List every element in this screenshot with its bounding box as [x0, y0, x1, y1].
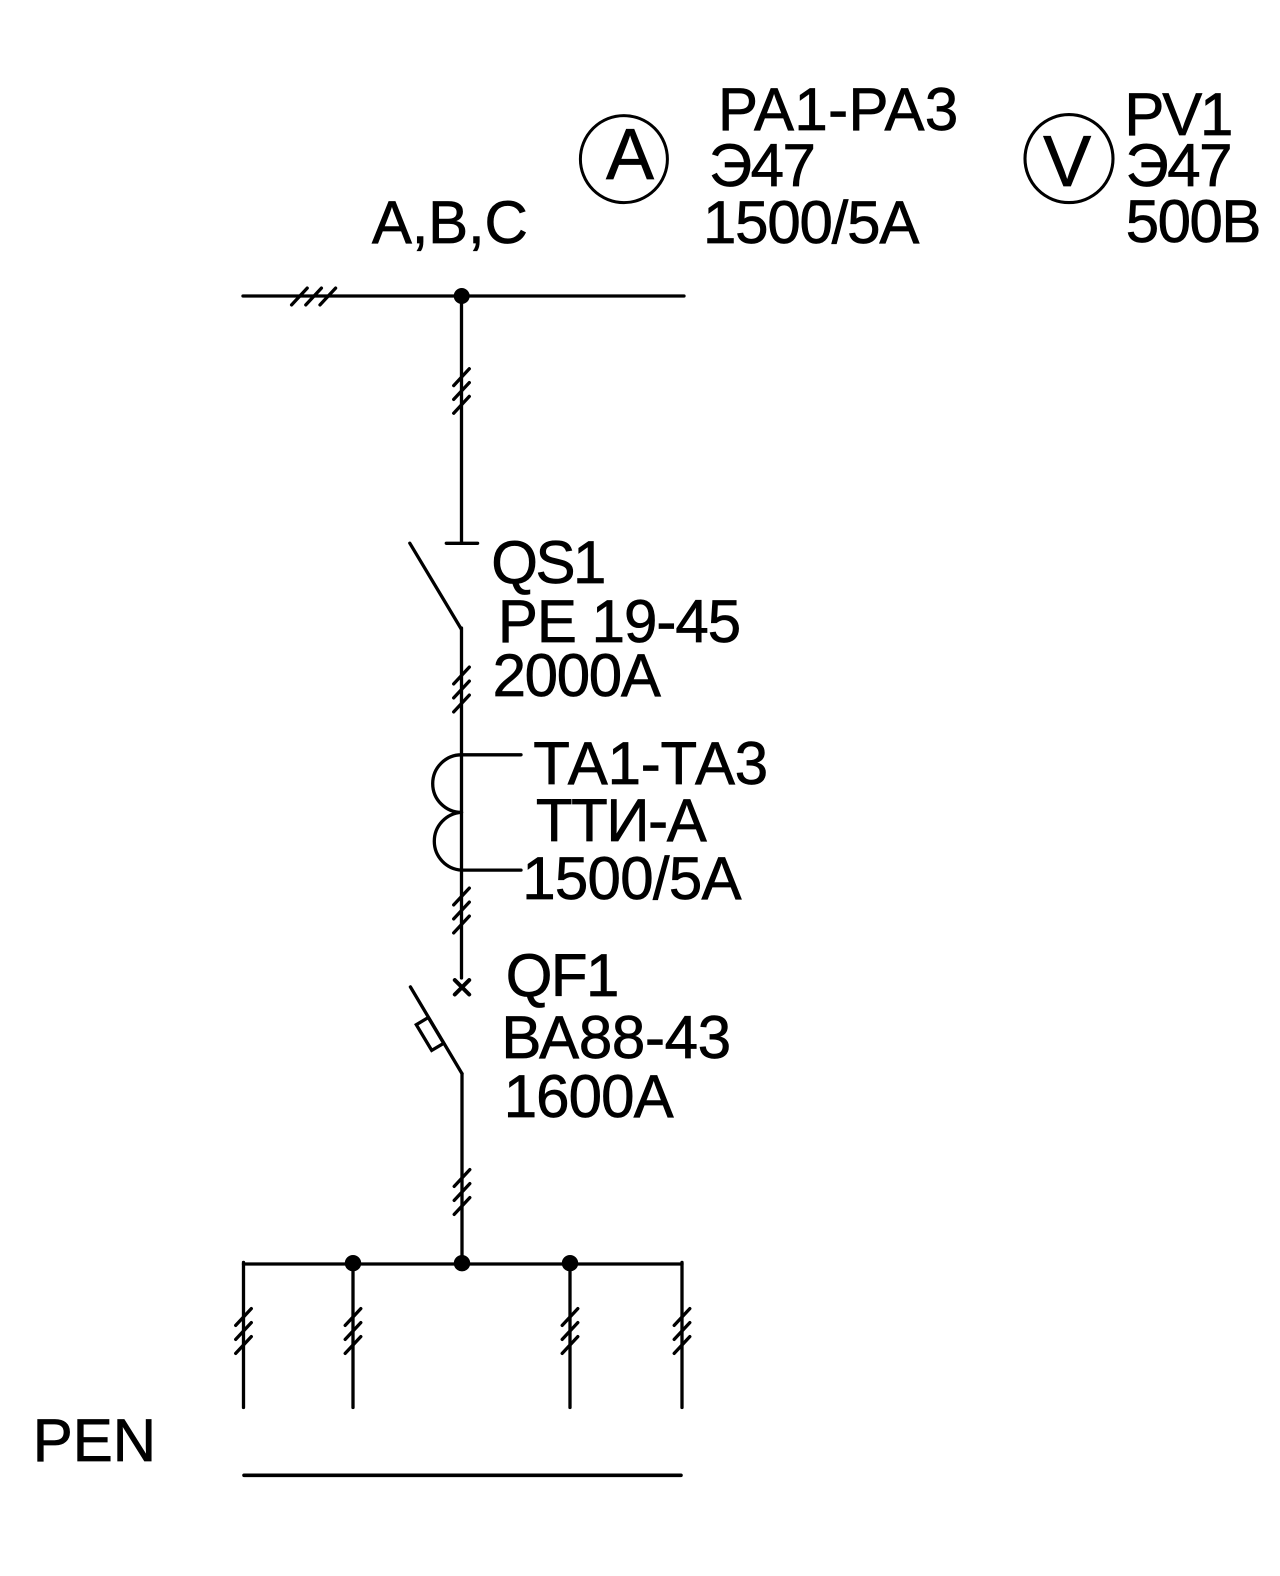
voltmeter PV circle — [1025, 115, 1113, 203]
value 1500/5A (ammeter) — [703, 193, 918, 253]
label PA1-PA3 — [718, 80, 959, 140]
three-phase marks on feeder — [454, 369, 470, 386]
three-phase marks — [454, 667, 470, 684]
value 500V (voltmeter) — [1126, 192, 1260, 252]
circuit breaker QF1 — [455, 980, 469, 994]
net A,B,C — [372, 193, 528, 253]
feeder drops — [242, 1262, 245, 1407]
three-phase marks on drops — [236, 1309, 252, 1326]
value ТТИ-А (TA type) — [536, 791, 705, 851]
value Э47 (ammeter type) — [709, 136, 814, 196]
label QF1 — [506, 946, 618, 1006]
node: bus junction — [454, 288, 470, 304]
wire: main feeder drop — [460, 296, 463, 542]
three-phase marks on bus — [292, 288, 308, 305]
distribution bus — [244, 1262, 683, 1265]
value 1600A (QF1) — [504, 1067, 673, 1127]
ammeter U letter A — [606, 119, 654, 191]
wire QF to bus — [460, 1074, 463, 1264]
label QS1 — [491, 533, 604, 593]
value ВА88-43 (QF1 type) — [501, 1008, 730, 1068]
node: dist bus left — [345, 1255, 361, 1271]
PEN bus — [244, 1474, 681, 1478]
net PEN — [33, 1411, 156, 1471]
label TA1-TA3 — [533, 734, 768, 794]
voltmeter U letter V — [1043, 126, 1091, 198]
bus A,B,C — [243, 294, 684, 297]
value 1500/5A (TA) — [522, 849, 741, 909]
value Э47 (voltmeter type) — [1126, 136, 1231, 196]
value РЕ 19-45 (QS1 type) — [498, 592, 740, 652]
wire QS1 to TA — [460, 628, 463, 756]
current transformer TA1-TA3 — [462, 753, 522, 756]
disconnector QS1 — [446, 542, 477, 545]
label PV1 — [1124, 85, 1231, 145]
node: dist bus right — [562, 1255, 578, 1271]
node: dist bus centre — [454, 1255, 470, 1271]
ammeter PA circle — [580, 116, 667, 203]
three-phase marks — [454, 888, 470, 905]
value 2000A (QS1) — [493, 646, 660, 706]
three-phase marks — [454, 1170, 470, 1187]
wire TA to QF — [460, 755, 463, 978]
